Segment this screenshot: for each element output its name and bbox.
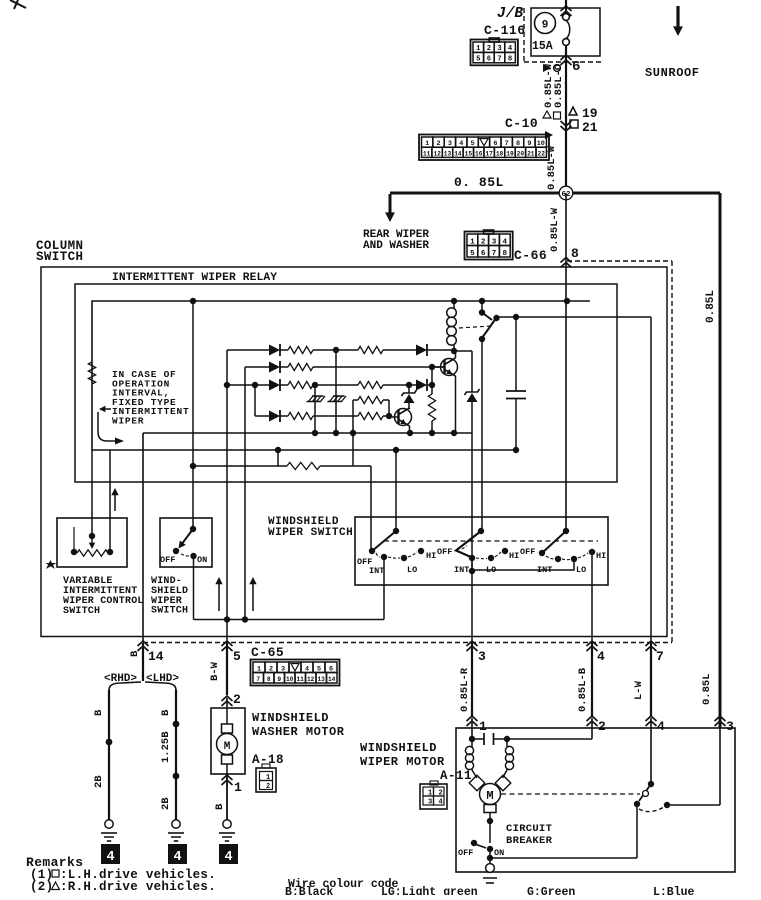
svg-text:2: 2 [598,719,606,734]
svg-text:13: 13 [444,150,452,157]
svg-text:11: 11 [423,150,431,157]
svg-text:SWITCH: SWITCH [63,606,100,617]
svg-text:LO: LO [407,565,417,575]
svg-text:1: 1 [479,719,487,734]
svg-text:B: B [93,709,105,716]
svg-text:15A: 15A [532,40,553,53]
svg-text:20: 20 [517,150,525,157]
svg-text:HI: HI [426,551,436,561]
svg-text:8: 8 [571,246,579,261]
svg-text:14: 14 [328,676,336,683]
svg-text:A-11: A-11 [440,769,472,783]
svg-text:OFF: OFF [520,547,535,557]
svg-text:B: B [214,803,226,810]
svg-text:21: 21 [582,120,598,135]
svg-text:OFF: OFF [160,555,175,565]
svg-text:17: 17 [485,150,493,157]
svg-text:C-65: C-65 [251,645,284,660]
svg-text:3: 3 [428,799,432,807]
svg-text:4: 4 [657,719,665,734]
svg-text:7: 7 [497,56,501,64]
svg-text:4: 4 [173,850,181,865]
svg-text:9: 9 [542,20,549,32]
svg-text:WIPER SWITCH: WIPER SWITCH [268,527,353,539]
svg-text:A-18: A-18 [252,753,284,767]
svg-text:2: 2 [233,692,241,707]
svg-text:16: 16 [475,150,483,157]
svg-text:19: 19 [506,150,514,157]
svg-text:1: 1 [234,780,242,795]
svg-text:LO: LO [576,565,586,575]
svg-text:13: 13 [317,676,325,683]
svg-text:HI: HI [596,551,606,561]
svg-text:11: 11 [296,676,304,683]
svg-text:1.25B: 1.25B [160,731,172,763]
svg-text:OFF: OFF [458,848,473,858]
svg-text:B-W: B-W [209,661,221,681]
svg-text:0.85L: 0.85L [705,290,717,323]
svg-text:6: 6 [481,250,486,258]
svg-text:G:Green: G:Green [527,886,575,895]
svg-text:2B: 2B [93,775,105,788]
svg-text:2B: 2B [160,797,172,810]
svg-text:OFF: OFF [437,547,452,557]
svg-text:C-10: C-10 [505,116,538,131]
svg-text:0.85L: 0.85L [701,673,713,705]
svg-text:7: 7 [656,649,664,664]
svg-text:WIPER MOTOR: WIPER MOTOR [360,755,445,769]
svg-text:J/B: J/B [497,6,523,22]
svg-text:0.85L-W: 0.85L-W [546,145,558,190]
svg-text:4: 4 [439,799,443,807]
svg-text:12: 12 [433,150,441,157]
svg-text:ON: ON [197,555,207,565]
svg-text:CIRCUIT: CIRCUIT [506,823,552,835]
svg-text:19: 19 [582,106,598,121]
svg-text:2: 2 [266,783,270,791]
svg-text:INT: INT [454,565,469,575]
svg-text:L:Blue: L:Blue [653,886,695,895]
svg-text:6: 6 [572,59,580,75]
svg-text:7: 7 [492,250,497,258]
svg-text:18: 18 [496,150,504,157]
svg-text:3: 3 [478,649,486,664]
svg-text::R.H.drive vehicles.: :R.H.drive vehicles. [60,880,216,894]
svg-text:WASHER MOTOR: WASHER MOTOR [252,725,345,739]
svg-text:(2): (2) [30,880,53,894]
svg-text:0. 85L: 0. 85L [454,175,504,190]
svg-text:L-W: L-W [633,680,645,700]
svg-text:C-116: C-116 [484,23,526,38]
svg-text:M: M [224,741,231,753]
svg-text:4: 4 [597,649,605,664]
svg-text:0.85L-R: 0.85L-R [459,667,471,712]
svg-text:6: 6 [487,56,491,64]
svg-text:B: B [129,650,141,657]
svg-text:0.85L-W: 0.85L-W [549,207,561,252]
svg-text:B:Black: B:Black [285,886,333,895]
svg-text:3: 3 [726,719,734,734]
svg-text:HI: HI [509,551,519,561]
svg-text:9: 9 [277,676,281,683]
svg-text:5: 5 [470,250,475,258]
svg-text:SWITCH: SWITCH [151,606,188,617]
svg-text:SUNROOF: SUNROOF [645,66,700,80]
svg-text:12: 12 [307,676,315,683]
svg-text:WINDSHIELD: WINDSHIELD [360,741,437,755]
svg-text:14: 14 [454,150,462,157]
svg-text:INT: INT [369,566,384,576]
svg-text:SWITCH: SWITCH [36,250,83,264]
svg-text:0.85L-O: 0.85L-O [553,64,565,108]
svg-text:LG:Light green: LG:Light green [381,886,478,895]
svg-text:8: 8 [508,56,512,64]
svg-text:WINDSHIELD: WINDSHIELD [252,711,329,725]
svg-text:22: 22 [537,150,545,157]
svg-text:8: 8 [267,676,271,683]
svg-text:BREAKER: BREAKER [506,835,553,847]
svg-text:8: 8 [503,250,508,258]
svg-text:AND WASHER: AND WASHER [363,240,429,252]
svg-text:B: B [160,709,172,716]
svg-text:4: 4 [106,850,114,865]
svg-text:M: M [486,789,493,803]
svg-text:INTERMITTENT WIPER RELAY: INTERMITTENT WIPER RELAY [112,272,277,284]
svg-text:14: 14 [148,649,164,664]
svg-text:WIPER: WIPER [112,416,144,427]
svg-text:21: 21 [527,150,535,157]
svg-text:C-66: C-66 [514,248,547,263]
svg-text:4: 4 [224,850,232,865]
svg-text:15: 15 [465,150,473,157]
svg-text:10: 10 [286,676,294,683]
svg-text:ON: ON [494,848,504,858]
svg-text:0.85L-B: 0.85L-B [577,667,589,712]
svg-text:7: 7 [256,676,260,683]
svg-text:5: 5 [476,56,480,64]
svg-text:5: 5 [233,649,241,664]
